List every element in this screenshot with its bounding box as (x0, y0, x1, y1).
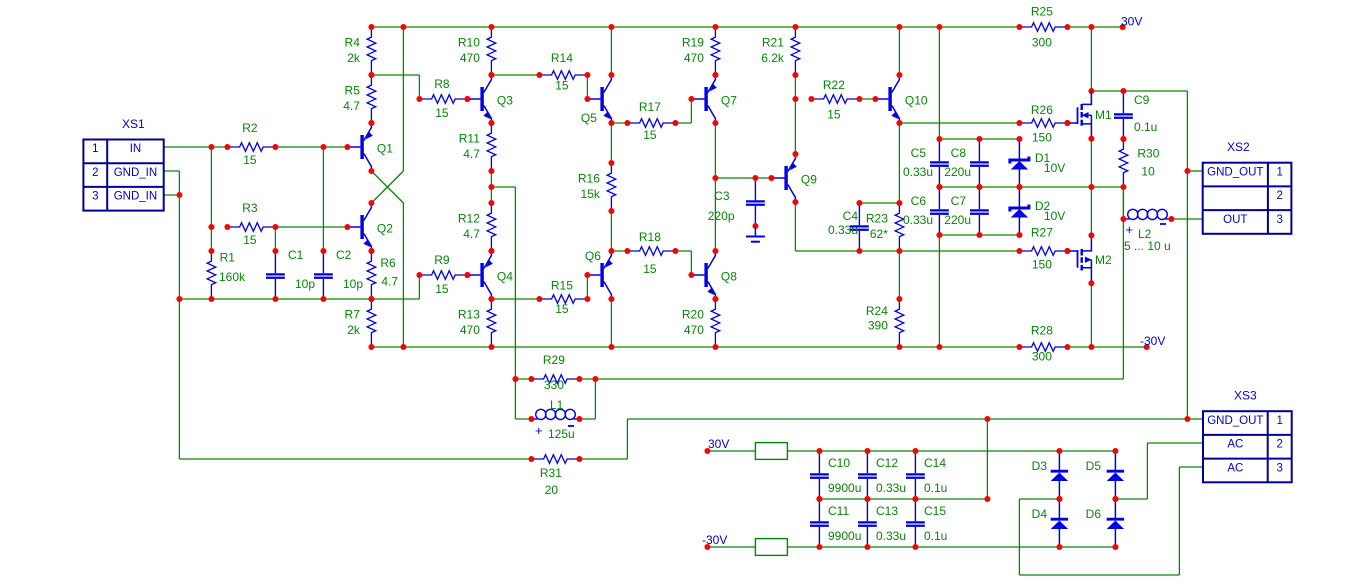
svg-text:R11: R11 (459, 132, 480, 146)
junction (611,27) (608, 24, 614, 30)
svg-text:0.33u: 0.33u (876, 481, 906, 495)
wire R23 to R24 link (898, 251, 900, 299)
resistor R13 (487, 299, 496, 347)
svg-text:R27: R27 (1031, 226, 1053, 240)
resistor R25 (1019, 23, 1067, 32)
wire XS2 column (1186, 91, 1188, 419)
svg-text:R9: R9 (434, 253, 450, 267)
diode D6 (1114, 499, 1116, 518)
svg-text:R8: R8 (434, 77, 450, 91)
wire R1 column (210, 147, 212, 251)
wire feedback to output node (595, 378, 1123, 380)
svg-text:3: 3 (92, 191, 98, 203)
svg-text:D4: D4 (1032, 507, 1048, 521)
wire feedback column (514, 187, 516, 419)
svg-text:R14: R14 (551, 51, 573, 65)
svg-text:4.7: 4.7 (463, 227, 480, 241)
wire long input vertical (402, 27, 404, 171)
wire M1 drain node row (1091, 90, 1187, 92)
wire supply mid row (819, 498, 987, 500)
wire output to L2 (1122, 187, 1124, 219)
svg-text:Q1: Q1 (377, 142, 393, 156)
wire R29/L1 left node (515, 418, 531, 420)
svg-text:R21: R21 (762, 36, 784, 50)
resistor R4 (367, 27, 376, 75)
wire R31 to ground bus jog (579, 458, 627, 460)
transistor Q1 (347, 146, 360, 148)
wire Q9 emitter row to R27 (795, 250, 1019, 252)
wire R3 node to C1 (274, 227, 276, 251)
svg-text:R26: R26 (1031, 103, 1053, 117)
svg-text:C13: C13 (876, 504, 898, 518)
svg-text:-30V: -30V (702, 533, 727, 547)
svg-text:C1: C1 (288, 248, 304, 262)
wire ground bus to supply mid (986, 419, 988, 499)
junction (403,347) (400, 344, 406, 350)
svg-text:GND_IN: GND_IN (114, 191, 157, 203)
svg-text:XS3: XS3 (1234, 389, 1257, 403)
svg-text:R1: R1 (220, 251, 236, 265)
svg-text:M2: M2 (1095, 253, 1112, 267)
junction (939,27) (936, 24, 942, 30)
svg-text:R20: R20 (682, 308, 704, 322)
svg-text:4.7: 4.7 (381, 275, 398, 289)
svg-text:15: 15 (827, 108, 841, 122)
wire R2 to Q1 base (275, 146, 347, 148)
resistor R20 (711, 299, 720, 347)
svg-text:R7: R7 (345, 308, 361, 322)
svg-text:3: 3 (1276, 214, 1282, 226)
capacitor C15 (914, 499, 916, 521)
capacitor C1 (274, 251, 276, 273)
svg-text:GND_IN: GND_IN (114, 167, 157, 179)
resistor R14 (539, 71, 587, 80)
svg-text:9900u: 9900u (828, 529, 861, 543)
svg-text:0.33u: 0.33u (876, 529, 906, 543)
wire Q5 collector up (610, 27, 612, 75)
svg-text:30V: 30V (1121, 15, 1142, 29)
resistor R16 (607, 163, 616, 211)
svg-text:300: 300 (1032, 350, 1052, 364)
capacitor C14 (914, 451, 916, 473)
svg-text:2: 2 (1276, 439, 1282, 451)
svg-text:C10: C10 (828, 456, 850, 470)
wire -30V rail (371, 346, 1019, 348)
capacitor C4 (858, 203, 860, 225)
svg-text:IN: IN (130, 143, 142, 155)
wire Q4 emitter to R15 (491, 298, 539, 300)
wire Q10 emitter to bias spreader (898, 123, 900, 203)
transistor Q2 (347, 226, 360, 228)
wire M2 drain up (1090, 187, 1092, 235)
transistor Q4 (467, 274, 480, 276)
junction (595,379) (592, 376, 598, 382)
transistor Q6 (587, 274, 600, 276)
wire R14 to Q5 base jog (586, 75, 588, 99)
wire cross Q1 emitter to Q2 side (371, 171, 403, 203)
wire L2 to XS2 OUT (1171, 218, 1202, 220)
resistor R19 (711, 27, 720, 75)
svg-text:R28: R28 (1031, 324, 1053, 338)
wire cross to Q2 collector (371, 171, 403, 203)
wire crossed vertical down to -30V rail (402, 203, 404, 347)
svg-text:R4: R4 (345, 36, 361, 50)
svg-text:R12: R12 (458, 212, 480, 226)
resistor R22 (811, 95, 859, 104)
svg-text:0.33u: 0.33u (828, 223, 858, 237)
resistor R10 (487, 27, 496, 75)
resistor R26 (1019, 119, 1067, 128)
resistor R17 (627, 119, 675, 128)
wire top rail to C5 column (938, 27, 940, 139)
svg-text:R13: R13 (458, 308, 480, 322)
wire 30V supply row (707, 450, 755, 452)
wire Q10 collector up (898, 27, 900, 75)
svg-text:0.1u: 0.1u (1134, 120, 1157, 134)
svg-text:4.7: 4.7 (463, 147, 480, 161)
svg-text:Q6: Q6 (585, 249, 601, 263)
resistor R7 (367, 299, 376, 347)
MOSFET M2 (1067, 250, 1077, 252)
wire R3 to Q2 base (275, 226, 347, 228)
svg-text:Q5: Q5 (581, 111, 597, 125)
svg-text:+: + (1126, 222, 1134, 237)
capacitor C11 (818, 499, 820, 521)
svg-text:3: 3 (1276, 462, 1282, 474)
wire C6 column to -30V rail (938, 235, 940, 347)
capacitor C6 (938, 187, 940, 209)
wire M1 source down (1090, 139, 1092, 187)
zener D2 10V (1018, 187, 1020, 207)
svg-text:C12: C12 (876, 456, 898, 470)
svg-text:220u: 220u (944, 165, 971, 179)
svg-text:15: 15 (435, 282, 449, 296)
resistor R3 (227, 223, 275, 232)
svg-text:0.33u: 0.33u (903, 213, 933, 227)
svg-text:Q9: Q9 (801, 173, 817, 187)
svg-text:AC: AC (1227, 439, 1243, 451)
svg-text:R10: R10 (458, 36, 480, 50)
svg-text:XS2: XS2 (1227, 140, 1250, 154)
svg-text:160k: 160k (219, 270, 246, 284)
svg-text:C2: C2 (336, 248, 352, 262)
inductor L1 (531, 418, 537, 420)
svg-text:R3: R3 (242, 201, 258, 215)
resistor R12 (487, 203, 496, 251)
wire XS2 GND_OUT stub (1187, 170, 1202, 172)
svg-text:R6: R6 (380, 256, 396, 270)
svg-text:R24: R24 (866, 304, 888, 318)
wire +30V top rail (371, 26, 1019, 28)
capacitor C12 (866, 451, 868, 473)
wire R22 right to Q10 base (859, 98, 875, 100)
wire M1 drain column (1090, 27, 1092, 105)
svg-text:15: 15 (555, 79, 569, 93)
resistor R21 (791, 27, 800, 75)
svg-text:C3: C3 (714, 189, 730, 203)
resistor R18 (627, 247, 675, 256)
junction (1091,91) (1088, 88, 1094, 94)
connector XS3 (1203, 411, 1292, 482)
svg-text:C6: C6 (911, 194, 927, 208)
diode D5 (1114, 451, 1116, 470)
transistor Q10 (875, 98, 888, 100)
transistor Q9 (771, 177, 784, 179)
svg-text:XS1: XS1 (122, 117, 145, 131)
wire output node rail (939, 186, 1123, 188)
junction (899,27) (896, 24, 902, 30)
svg-text:Q2: Q2 (377, 222, 393, 236)
wire R2 node to C2 column (322, 147, 324, 251)
svg-text:15: 15 (643, 128, 657, 142)
svg-text:C9: C9 (1134, 93, 1150, 107)
svg-text:R23: R23 (866, 212, 888, 226)
junction (403,27) (400, 24, 406, 30)
svg-text:C14: C14 (924, 456, 946, 470)
svg-text:15k: 15k (581, 187, 601, 201)
svg-text:125u: 125u (548, 427, 575, 441)
resistor R6 (367, 251, 376, 299)
wire R17 to Q7 base jog (675, 122, 691, 124)
svg-text:15: 15 (243, 233, 257, 247)
svg-text:R19: R19 (682, 36, 704, 50)
svg-text:C4: C4 (843, 209, 859, 223)
svg-text:470: 470 (684, 323, 704, 337)
inductor L2 (1123, 218, 1129, 220)
wire R16 to Q6 collector (610, 211, 612, 251)
svg-text:390: 390 (868, 319, 888, 333)
svg-text:D5: D5 (1086, 459, 1102, 473)
svg-text:GND_OUT: GND_OUT (1207, 415, 1263, 427)
wire Q6 collector to R18 (611, 250, 627, 252)
svg-text:C11: C11 (828, 504, 849, 518)
svg-text:Q8: Q8 (721, 270, 737, 284)
capacitor C8 (978, 139, 980, 161)
svg-text:10: 10 (1141, 165, 1155, 179)
wire R11 to R12 link (490, 171, 492, 203)
svg-text:1: 1 (92, 143, 98, 155)
transistor Q7 (691, 98, 704, 100)
svg-text:-30V: -30V (1140, 334, 1165, 348)
svg-text:R30: R30 (1137, 147, 1159, 161)
svg-text:C15: C15 (924, 504, 946, 518)
svg-text:Q7: Q7 (721, 94, 737, 108)
svg-text:1: 1 (1276, 415, 1282, 427)
wire XS1 pin3 to ground column (163, 194, 179, 196)
svg-text:15: 15 (555, 302, 569, 316)
capacitor C10 (818, 451, 820, 473)
svg-text:150: 150 (1032, 258, 1052, 272)
resistor R30 (1119, 139, 1128, 187)
resistor R27 (1019, 247, 1067, 256)
fuse F2 (755, 539, 787, 556)
svg-text:220u: 220u (944, 213, 971, 227)
diode D4 (1058, 499, 1060, 518)
svg-text:300: 300 (1032, 36, 1052, 50)
resistor R28 (1019, 343, 1067, 352)
svg-text:10V: 10V (1044, 209, 1065, 223)
svg-text:R17: R17 (639, 100, 661, 114)
resistor R1 (207, 251, 216, 299)
node 30V supply (704, 448, 710, 454)
junction (1091,27) (1088, 24, 1094, 30)
junction (611,347) (608, 344, 614, 350)
wire C6/C7/D2 bottom row (939, 234, 1019, 236)
resistor R2 (227, 143, 275, 152)
node 30V top (1120, 24, 1126, 30)
connector XS2 (1203, 163, 1292, 234)
svg-text:R15: R15 (551, 279, 573, 293)
svg-text:M1: M1 (1095, 108, 1112, 122)
junction (1091,187) (1088, 184, 1094, 190)
wire XS1 pin2 jog (163, 170, 179, 172)
wire Q3 collector to R14 (491, 74, 539, 76)
svg-text:1: 1 (1276, 166, 1282, 178)
svg-text:GND_OUT: GND_OUT (1207, 166, 1263, 178)
svg-text:9900u: 9900u (828, 481, 861, 495)
svg-text:6.2k: 6.2k (761, 51, 785, 65)
svg-text:150: 150 (1032, 131, 1052, 145)
svg-text:Q10: Q10 (905, 94, 928, 108)
junction (179,299) (176, 296, 182, 302)
capacitor C13 (866, 499, 868, 521)
svg-text:30V: 30V (708, 437, 729, 451)
capacitor C5 (938, 139, 940, 161)
junction (939,347) (936, 344, 942, 350)
svg-text:0.33u: 0.33u (903, 165, 933, 179)
resistor R29 (531, 375, 579, 384)
svg-text:R31: R31 (540, 466, 562, 480)
resistor R15 (539, 295, 587, 304)
junction (211,227) (208, 224, 214, 230)
wire Q7 collector to Q8 collector (714, 123, 716, 251)
svg-text:470: 470 (684, 51, 704, 65)
wire M2 source down (1090, 283, 1092, 347)
svg-text:470: 470 (460, 323, 480, 337)
resistor R23 (895, 203, 904, 251)
svg-text:R29: R29 (543, 353, 565, 367)
svg-text:470: 470 (460, 51, 480, 65)
svg-text:R16: R16 (578, 172, 600, 186)
svg-text:D6: D6 (1086, 507, 1102, 521)
wire AC3 path (1179, 466, 1203, 468)
svg-text:220p: 220p (708, 209, 735, 223)
wire ground to R31 (179, 458, 531, 460)
svg-text:20: 20 (545, 483, 559, 497)
node ground bus / XS3 (1184, 416, 1190, 422)
wire ground bus to XS3 (627, 418, 1203, 420)
wire C5/C8/D1 top row (939, 138, 1019, 140)
svg-text:15: 15 (643, 262, 657, 276)
wire Q5 emitter to R16 (610, 123, 612, 163)
wire AC2 path (1147, 442, 1203, 444)
wire Q5 emitter to R17 (611, 122, 627, 124)
wire XS1 IN to R2 (163, 146, 227, 148)
svg-text:10V: 10V (1044, 161, 1065, 175)
svg-text:62*: 62* (870, 227, 888, 241)
connector XS1 (83, 140, 163, 211)
junction (323,147) (320, 144, 326, 150)
junction (1091,347) (1088, 344, 1094, 350)
svg-text:4.7: 4.7 (343, 99, 360, 113)
svg-text:2k: 2k (347, 51, 361, 65)
diode D3 (1058, 451, 1060, 470)
svg-text:Q4: Q4 (497, 270, 513, 284)
wire C3 row Q7 to Q9 base (715, 177, 771, 179)
node -30V supply (704, 544, 710, 550)
resistor R31 (531, 455, 579, 464)
transistor Q3 (467, 98, 480, 100)
capacitor C7 (978, 187, 980, 209)
svg-text:Q3: Q3 (497, 94, 513, 108)
svg-text:10p: 10p (343, 277, 363, 291)
zener D1 10V (1018, 139, 1020, 159)
svg-text:+: + (535, 423, 543, 438)
svg-text:C8: C8 (951, 146, 967, 160)
wire Q9 emitter down (794, 203, 796, 251)
resistor R9 (419, 271, 467, 280)
wire Q10 emitter to R26 (899, 122, 1019, 124)
wire R18 to Q8 base jog (675, 250, 691, 252)
svg-text:AC: AC (1227, 462, 1243, 474)
wire C4/R23 top row (859, 202, 899, 204)
svg-text:R22: R22 (823, 78, 845, 92)
svg-text:C5: C5 (911, 146, 927, 160)
svg-text:R5: R5 (345, 84, 361, 98)
junction (211,147) (208, 144, 214, 150)
wire R21 to Q9 collector (794, 75, 796, 154)
capacitor C9 (1122, 91, 1124, 113)
transistor Q5 (587, 98, 600, 100)
resistor R11 (487, 123, 496, 171)
svg-text:0.1u: 0.1u (924, 481, 947, 495)
resistor R5 (367, 75, 376, 123)
svg-text:2: 2 (1276, 190, 1282, 202)
capacitor C3 (754, 178, 756, 200)
resistor R8 (419, 95, 467, 104)
svg-text:0.1u: 0.1u (924, 529, 947, 543)
wire R15 to Q6 base jog (586, 275, 588, 299)
svg-text:2k: 2k (347, 323, 361, 337)
svg-text:5 ... 10 u: 5 ... 10 u (1124, 239, 1171, 253)
junction (515,379) (512, 376, 518, 382)
ground (754, 227, 756, 237)
fuse F1 (755, 443, 787, 460)
svg-text:R2: R2 (242, 121, 258, 135)
svg-text:R18: R18 (639, 230, 661, 244)
resistor R24 (895, 299, 904, 347)
wire feedback tap R11/R12 junction (491, 186, 515, 188)
wire -30V supply row (707, 546, 755, 548)
wire Q6 emitter down (610, 299, 612, 347)
wire R4/R5 node to R8 jog (371, 74, 419, 76)
svg-text:330: 330 (544, 378, 564, 392)
svg-text:OUT: OUT (1223, 214, 1247, 226)
junction (795,99) (792, 96, 798, 102)
svg-text:R25: R25 (1031, 5, 1053, 19)
MOSFET M1 (1067, 122, 1077, 124)
svg-text:10p: 10p (295, 277, 315, 291)
wire input ground rail (179, 298, 419, 300)
svg-text:15: 15 (243, 153, 257, 167)
junction (715,178) (712, 175, 718, 181)
transistor Q8 (691, 274, 704, 276)
capacitor C2 (322, 251, 324, 273)
svg-text:2: 2 (92, 167, 98, 179)
svg-text:C7: C7 (951, 194, 967, 208)
wire XS1 ground column down (178, 195, 180, 299)
wire R29/L1 right node (579, 378, 595, 380)
